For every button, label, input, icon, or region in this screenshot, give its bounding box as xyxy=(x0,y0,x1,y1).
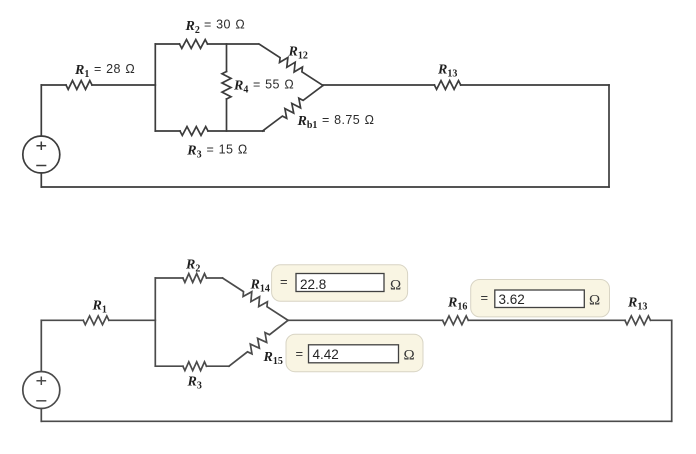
svg-text:Ω: Ω xyxy=(390,278,401,294)
resistor Rb1 xyxy=(263,86,324,132)
wire top left xyxy=(155,277,183,279)
V2 minus sign xyxy=(37,400,46,402)
wire bottom left xyxy=(155,130,180,132)
wire node to R13 xyxy=(323,84,434,86)
wire V1 bottom xyxy=(40,173,42,187)
resistor R4 xyxy=(222,72,231,100)
svg-text:R2: R2 xyxy=(185,19,200,36)
resistor R16 xyxy=(443,316,469,325)
resistor R1 xyxy=(66,81,92,90)
svg-text:R2: R2 xyxy=(185,258,200,275)
wire R3 to diagonal xyxy=(207,365,230,367)
svg-text:R3: R3 xyxy=(187,375,202,392)
wire left horizontal xyxy=(41,84,66,86)
wire top right xyxy=(208,43,259,45)
voltage source V2 xyxy=(23,372,60,409)
voltage source V1 xyxy=(23,136,60,173)
wire bottom return xyxy=(41,186,609,188)
resistor R13 xyxy=(434,81,460,90)
wire R2 to diagonal xyxy=(207,277,223,279)
resistor R3 xyxy=(183,362,207,371)
top circuit labels xyxy=(74,18,457,161)
wire right vertical xyxy=(671,320,673,421)
wire left vertical of bridge xyxy=(154,44,156,131)
resistor R14 xyxy=(223,278,289,320)
svg-text:= 55 Ω: = 55 Ω xyxy=(253,78,294,92)
svg-text:Ω: Ω xyxy=(589,293,600,309)
wire V1 top to node xyxy=(40,85,42,136)
svg-text:R1: R1 xyxy=(74,63,89,80)
wire R13 to right corner xyxy=(461,84,609,86)
wire bottom left xyxy=(155,365,183,367)
V2 plus sign xyxy=(37,377,45,384)
resistor R15 xyxy=(229,320,288,366)
wire right vertical xyxy=(608,85,610,187)
svg-text:R12: R12 xyxy=(288,45,308,62)
svg-text:R3: R3 xyxy=(186,144,201,161)
resistor R1 xyxy=(83,316,109,325)
wire bottom return xyxy=(41,420,671,422)
svg-text:R4: R4 xyxy=(233,79,248,96)
wire V2 top xyxy=(40,320,42,371)
bottom circuit labels xyxy=(92,258,648,392)
svg-text:= 8.75 Ω: = 8.75 Ω xyxy=(322,113,374,127)
svg-text:Rb1: Rb1 xyxy=(297,114,318,131)
wire middle vertical bottom xyxy=(226,99,228,131)
svg-text:R14: R14 xyxy=(250,278,270,295)
svg-text:= 30 Ω: = 30 Ω xyxy=(204,18,245,32)
answer box R15 = 4.42 xyxy=(286,334,423,372)
wire left horizontal xyxy=(41,319,83,321)
wire R16 to R13 xyxy=(468,319,625,321)
wire left vertical xyxy=(154,278,156,366)
svg-text:=: = xyxy=(280,274,288,289)
svg-text:= 15 Ω: = 15 Ω xyxy=(207,143,248,157)
svg-text:R15: R15 xyxy=(263,350,283,367)
wire R1 to split xyxy=(109,319,155,321)
wire R13 to corner xyxy=(651,319,672,321)
wire bottom right xyxy=(208,130,264,132)
resistor R2 xyxy=(183,274,207,283)
svg-text:= 28 Ω: = 28 Ω xyxy=(94,62,135,76)
svg-text:R1: R1 xyxy=(92,299,107,316)
resistor R12 xyxy=(259,44,323,86)
wire top left xyxy=(155,43,179,45)
resistor R13 xyxy=(625,316,651,325)
V1 minus sign xyxy=(37,165,46,167)
wire R1 to box xyxy=(92,84,155,86)
V1 plus sign xyxy=(37,142,45,149)
svg-text:3.62: 3.62 xyxy=(499,292,525,307)
svg-text:4.42: 4.42 xyxy=(313,347,339,362)
svg-text:R16: R16 xyxy=(447,296,467,313)
resistor R3 xyxy=(180,127,208,136)
svg-text:R13: R13 xyxy=(437,63,457,80)
answer box R16 = 3.62 xyxy=(471,280,610,317)
wire V2 bottom xyxy=(40,409,42,422)
svg-text:=: = xyxy=(481,290,489,305)
svg-text:=: = xyxy=(296,346,304,361)
svg-text:Ω: Ω xyxy=(404,348,415,364)
wire middle vertical top xyxy=(226,44,228,72)
svg-text:R13: R13 xyxy=(627,296,647,313)
resistor R2 xyxy=(180,40,208,49)
svg-text:22.8: 22.8 xyxy=(300,277,326,292)
wire node to R16 xyxy=(288,319,443,321)
answer box R14 = 22.8 xyxy=(272,265,408,302)
